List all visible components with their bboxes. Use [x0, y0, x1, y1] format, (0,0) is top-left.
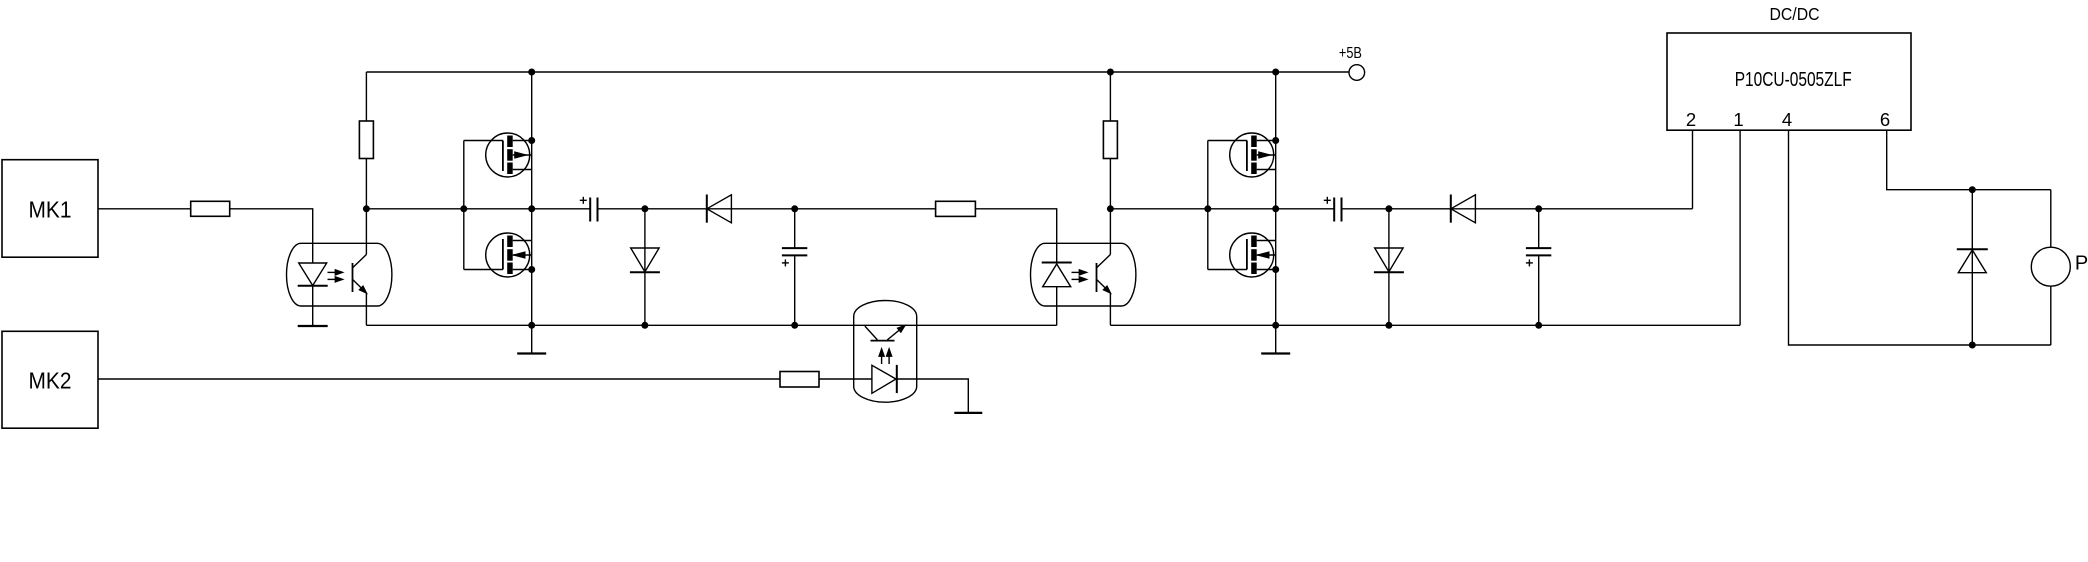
optocoupler U3 body [854, 301, 917, 403]
node dots stage2 bottom [1385, 322, 1392, 329]
ground of U3 LED [954, 412, 982, 414]
transistor Q3 (upper MOSFET) [1230, 133, 1274, 177]
wire gate lead [464, 140, 503, 142]
ground (MOSFET stage) [1275, 325, 1277, 353]
terminal +5B [1349, 65, 1365, 81]
mid rail segment (C1 to R5) [598, 208, 936, 210]
wire pin 1 to bottom rail [1739, 130, 1741, 325]
gate bus wire [1207, 141, 1209, 270]
block MK2 [2, 331, 98, 428]
svg-text:P10CU-0505ZLF: P10CU-0505ZLF [1735, 69, 1852, 91]
node dots stage1 mid [363, 205, 370, 212]
U1 light arrows [328, 271, 343, 273]
optocoupler U2 body [1031, 243, 1136, 306]
node dots stage1 bottom [641, 322, 648, 329]
wire R3 to node [1109, 159, 1111, 209]
diode D3 (shunt) [1388, 209, 1390, 325]
node dots output [1969, 186, 1976, 193]
wire gate lead [464, 269, 503, 271]
wire pin 2 to mid rail [1692, 130, 1694, 209]
MOSFET body arrow [1258, 252, 1269, 258]
bottom rail (stage2 ground net) [1110, 324, 1740, 326]
capacitor C1 (series, polarized) [589, 198, 591, 222]
node dots [1272, 69, 1279, 76]
MOSFET channel bars [507, 236, 513, 248]
svg-text:4: 4 [1782, 109, 1792, 130]
svg-text:P: P [2075, 253, 2088, 275]
diode D4 (series) [1451, 195, 1476, 223]
MOSFET channel bars [1251, 136, 1257, 148]
node dots [528, 69, 535, 76]
top rail +5V [366, 71, 1349, 73]
resistor R3 [1103, 121, 1117, 159]
wire gate lead [1208, 140, 1247, 142]
wire gate lead [1208, 269, 1247, 271]
mid rail segment (C3 to DC/DC pin 2) [1342, 208, 1693, 210]
wire U2 emitter to bottom rail [1109, 293, 1111, 325]
wire U1 collector to node [365, 209, 367, 255]
U3 phototransistor [871, 340, 895, 342]
resistor R5 [936, 201, 976, 216]
diode D1 (shunt) [644, 209, 646, 325]
MOSFET terminal stubs [1257, 240, 1276, 242]
diode D5 (shunt, pointing up) [1971, 190, 1973, 345]
LED of U3 [872, 365, 896, 393]
wire MK1 output [98, 208, 191, 210]
MOSFET terminal stubs [513, 140, 532, 142]
svg-text:MK2: MK2 [29, 367, 72, 393]
svg-text:2: 2 [1686, 109, 1696, 130]
node dots stage2 mid [1107, 205, 1114, 212]
wire R4 to U3 LED [819, 378, 872, 380]
block MK1 [2, 160, 98, 258]
MOSFET terminal stubs [1257, 140, 1276, 142]
wire R2 to node [365, 159, 367, 209]
resistor R1 [191, 201, 230, 216]
node dots top rail [1107, 69, 1114, 76]
bottom rail (stage1 ground net) [366, 324, 1056, 326]
wire top rail to R3 [1109, 72, 1111, 121]
MOSFET channel bars [1251, 236, 1257, 248]
svg-text:1: 1 [1733, 109, 1743, 130]
U1 phototransistor [352, 263, 354, 292]
U2 phototransistor [1096, 263, 1098, 292]
wire U1 cathode to ground [312, 286, 314, 326]
MOSFET body arrow [514, 252, 525, 258]
MOSFET output rail wire [531, 72, 533, 325]
wire U2 LED to bottom rail [1056, 287, 1058, 326]
resistor R2 [359, 121, 373, 159]
svg-text:MK1: MK1 [29, 196, 72, 222]
MOSFET channel bars [507, 136, 513, 148]
ground (MOSFET stage) [531, 325, 533, 353]
wire pin 6 to output plus [1887, 130, 2051, 190]
wire U2 collector to node [1109, 209, 1111, 255]
mid rail segment stage2 (node to C3) [1110, 208, 1334, 210]
MOSFET terminal stubs [513, 240, 532, 242]
LED of U1 [299, 263, 327, 286]
gate bus wire [463, 141, 465, 270]
capacitor C3 (series, polarized) [1333, 198, 1335, 222]
transistor Q4 (lower MOSFET) [1230, 233, 1274, 277]
wire top rail to R2 [365, 72, 367, 121]
diode D2 (series) [707, 195, 732, 223]
wire U3 cathode to ground [897, 379, 969, 413]
LED of U2 (pointing up) [1042, 262, 1072, 264]
DC/DC converter U4 [1667, 33, 1911, 130]
resistor R4 [780, 372, 819, 388]
capacitor C2 (shunt, polarized) [794, 209, 796, 248]
ground of U1 LED [298, 325, 328, 327]
capacitor C4 (shunt, polarized) [1538, 209, 1540, 248]
svg-text:+5В: +5В [1339, 45, 1362, 62]
wire U1 emitter to bottom rail [365, 293, 367, 325]
wire MK2 output [98, 378, 780, 380]
U2 light arrows [1072, 271, 1087, 273]
MOSFET output rail wire [1275, 72, 1277, 325]
transistor Q2 (lower MOSFET) [486, 233, 530, 277]
mid rail segment (node to C1) [366, 208, 590, 210]
wire R1 to optocoupler U1 anode [230, 209, 313, 263]
MOSFET body arrow [515, 152, 526, 158]
load P (circle) [2050, 190, 2052, 248]
wire R5 to U2 LED [975, 209, 1056, 263]
MOSFET body arrow [1259, 152, 1270, 158]
U3 light arrows [881, 349, 883, 364]
svg-text:DC/DC: DC/DC [1770, 4, 1820, 24]
svg-text:6: 6 [1880, 109, 1890, 130]
wire pin 4 to output minus [1789, 130, 2051, 345]
transistor Q1 (upper MOSFET) [486, 133, 530, 177]
optocoupler U1 body [287, 243, 392, 306]
